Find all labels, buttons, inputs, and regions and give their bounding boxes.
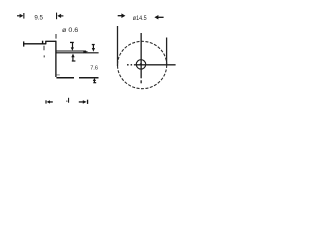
svg-text:ø14.5: ø14.5 bbox=[133, 15, 147, 22]
dimension 7.6 upper arrow (points down) bbox=[92, 44, 95, 52]
center dot bbox=[140, 63, 142, 65]
bottom dimension right arrow with tick bbox=[79, 100, 88, 104]
small tick on body top edge bbox=[42, 41, 43, 44]
extension line left of circle bbox=[117, 26, 119, 66]
bottom dimension left arrow with tick bbox=[45, 100, 52, 103]
svg-text:9.5: 9.5 bbox=[34, 14, 43, 21]
small inner circle bbox=[136, 60, 145, 69]
vertical center line bbox=[140, 33, 142, 83]
lead wire 1 (upper, double line with pointed end) bbox=[56, 50, 88, 53]
lead diameter arrow lower (points up at wire) bbox=[71, 54, 75, 62]
big circle (dashed, front view) bbox=[118, 41, 167, 88]
dimension 9.5 right arrow bbox=[56, 13, 63, 20]
svg-text:ø 0.6: ø 0.6 bbox=[62, 28, 79, 34]
hidden center line inside body (dashed) bbox=[43, 46, 45, 58]
bottom dimension tiny value label bbox=[66, 98, 69, 103]
extension line right of 9.5 dim bbox=[55, 34, 57, 39]
horizontal center line bbox=[127, 64, 176, 66]
lead diameter arrow upper (points down at wire) bbox=[70, 42, 74, 51]
svg-text:7.6: 7.6 bbox=[90, 66, 98, 72]
extension line right of circle bbox=[166, 38, 168, 66]
dimension dia 14.5 left arrow bbox=[118, 13, 126, 18]
dimension 7.6 lower arrow (points up) bbox=[93, 78, 96, 83]
dimension 9.5 left arrow bbox=[17, 13, 24, 19]
extension line lower for 7.6 dim bbox=[79, 77, 99, 79]
extension line upper for 7.6 dim bbox=[85, 52, 99, 54]
lead wire 2 (lower) bbox=[56, 75, 74, 78]
dimension dia 14.5 right arrow bbox=[154, 15, 163, 20]
body outline (side view) bbox=[23, 41, 56, 77]
